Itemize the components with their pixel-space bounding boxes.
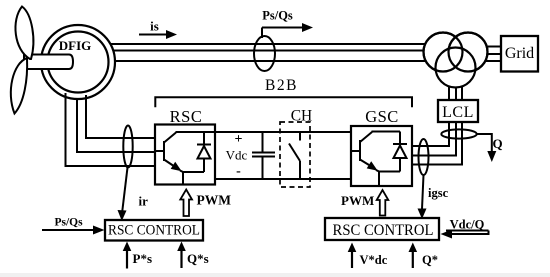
svg-text:-: - (236, 164, 241, 179)
svg-text:RSC CONTROL: RSC CONTROL (333, 222, 434, 239)
svg-text:P*s: P*s (133, 251, 153, 266)
svg-text:Q*: Q* (422, 253, 438, 267)
svg-text:+: + (235, 132, 243, 147)
svg-text:Grid: Grid (505, 45, 534, 62)
svg-text:is: is (150, 19, 159, 34)
svg-text:B2B: B2B (265, 77, 298, 94)
svg-text:Vdc/Q: Vdc/Q (450, 218, 485, 232)
svg-text:Vdc: Vdc (226, 148, 248, 163)
svg-text:igsc: igsc (428, 186, 449, 200)
svg-text:Q*s: Q*s (187, 251, 209, 266)
svg-text:ir: ir (139, 194, 149, 209)
svg-text:RSC: RSC (170, 107, 203, 126)
svg-text:LCL: LCL (442, 104, 474, 121)
svg-text:V*dc: V*dc (360, 253, 388, 267)
svg-text:Ps/Qs: Ps/Qs (54, 217, 83, 229)
svg-text:GSC: GSC (365, 107, 399, 126)
svg-text:Ps/Qs: Ps/Qs (262, 9, 293, 23)
svg-text:DFIG: DFIG (59, 38, 92, 53)
svg-text:PWM: PWM (197, 193, 232, 208)
svg-text:RSC CONTROL: RSC CONTROL (108, 223, 200, 239)
svg-text:Q: Q (492, 136, 502, 151)
svg-text:PWM: PWM (341, 193, 374, 208)
